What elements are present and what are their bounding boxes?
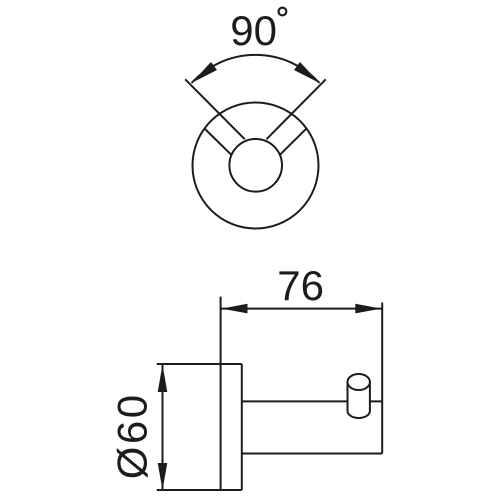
- outer circle (flange, top view): [193, 103, 319, 229]
- wall plate left edge + extension line: [220, 297, 222, 490]
- svg-text:76: 76: [277, 262, 324, 309]
- degree symbol: [279, 8, 287, 16]
- arrowhead arc right: [294, 62, 320, 83]
- svg-text:Ø60: Ø60: [109, 392, 156, 479]
- svg-text:90: 90: [230, 7, 277, 54]
- arrowhead 60 top: [158, 365, 168, 393]
- arrowhead 60 bottom: [158, 463, 168, 490]
- dimension line 76: [221, 308, 382, 310]
- wall plate bottom edge + extension line: [157, 489, 242, 491]
- hook pin cylinder body: [348, 382, 370, 418]
- right extension line: [381, 303, 383, 454]
- dimension line 60: [162, 365, 164, 491]
- wire left arm inner edge: [205, 129, 232, 155]
- wall plate top edge + extension line: [157, 363, 242, 365]
- angular dimension arc 90 deg: [192, 55, 320, 83]
- inner circle (boss, top view): [229, 139, 282, 192]
- hook arm bottom line: [242, 453, 382, 455]
- wire left arm outer edge / angle leg: [185, 79, 245, 139]
- arrowhead 76 left: [222, 304, 248, 314]
- arrowhead 76 right: [355, 304, 381, 314]
- wire right arm outer edge / angle leg: [267, 79, 326, 139]
- wall plate right edge: [241, 364, 243, 490]
- wire right arm inner edge: [280, 129, 306, 155]
- hook arm top line: [242, 400, 382, 402]
- arrowhead arc left: [192, 62, 218, 83]
- hook pin top ellipse: [348, 374, 370, 390]
